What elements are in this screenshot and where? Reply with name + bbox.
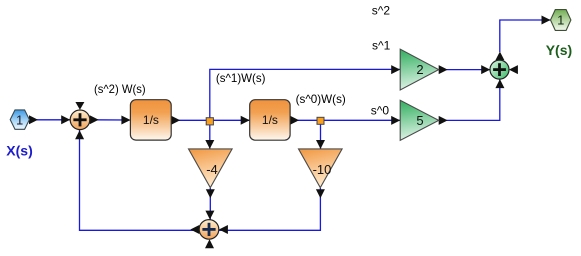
svg-text:2: 2 (416, 62, 423, 77)
svg-text:(s^2) W(s): (s^2) W(s) (94, 82, 146, 96)
svg-text:Y(s): Y(s) (546, 42, 572, 58)
svg-text:1: 1 (557, 13, 564, 28)
svg-text:-10: -10 (313, 162, 332, 177)
svg-text:1/s: 1/s (143, 113, 159, 127)
svg-text:-4: -4 (206, 162, 218, 177)
svg-text:5: 5 (416, 113, 423, 128)
svg-text:(s^0)W(s): (s^0)W(s) (296, 92, 346, 106)
svg-text:X(s): X(s) (6, 142, 32, 158)
svg-text:1: 1 (16, 112, 23, 127)
svg-text:1/s: 1/s (262, 113, 278, 127)
svg-text:s^2: s^2 (372, 3, 391, 17)
svg-text:(s^1)W(s): (s^1)W(s) (216, 71, 266, 85)
svg-text:s^0: s^0 (371, 103, 390, 117)
svg-text:s^1: s^1 (372, 39, 391, 53)
